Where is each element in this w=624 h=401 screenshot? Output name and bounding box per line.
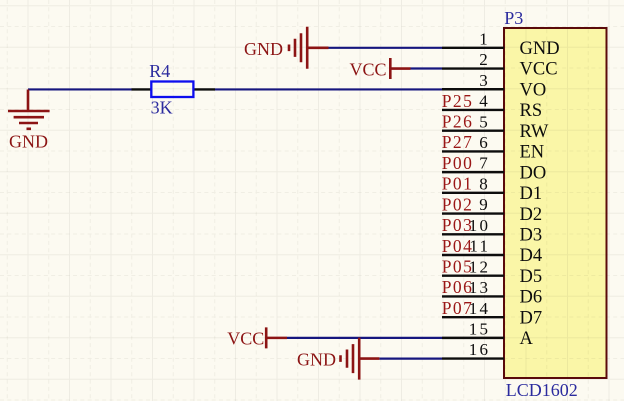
- svg-text:GND: GND: [244, 39, 283, 59]
- svg-text:D5: D5: [520, 267, 543, 287]
- svg-text:P25: P25: [442, 91, 473, 111]
- svg-text:D4: D4: [520, 246, 543, 266]
- svg-text:RS: RS: [520, 101, 543, 121]
- svg-text:D6: D6: [520, 288, 543, 308]
- svg-text:P02: P02: [442, 194, 473, 214]
- svg-text:VO: VO: [520, 80, 547, 100]
- svg-text:P3: P3: [504, 8, 523, 28]
- svg-text:VCC: VCC: [349, 60, 386, 80]
- svg-text:10: 10: [469, 216, 490, 235]
- svg-text:1: 1: [479, 29, 488, 48]
- svg-text:12: 12: [469, 257, 490, 276]
- svg-text:5: 5: [479, 112, 488, 131]
- svg-text:P00: P00: [442, 153, 473, 173]
- svg-text:9: 9: [479, 195, 488, 214]
- svg-text:P26: P26: [442, 111, 473, 131]
- svg-text:8: 8: [479, 174, 488, 193]
- svg-text:16: 16: [469, 340, 490, 359]
- svg-text:RW: RW: [520, 122, 549, 142]
- svg-text:3K: 3K: [151, 98, 173, 118]
- svg-text:6: 6: [479, 133, 488, 152]
- svg-text:2: 2: [479, 50, 488, 69]
- svg-text:D1: D1: [520, 184, 543, 204]
- svg-text:R4: R4: [149, 61, 170, 81]
- svg-text:7: 7: [479, 154, 488, 173]
- svg-text:15: 15: [469, 319, 490, 338]
- svg-text:VCC: VCC: [227, 329, 264, 349]
- svg-text:P01: P01: [442, 174, 473, 194]
- svg-text:EN: EN: [520, 143, 545, 163]
- svg-text:13: 13: [469, 278, 490, 297]
- svg-text:D2: D2: [520, 205, 543, 225]
- svg-text:GND: GND: [297, 350, 336, 370]
- svg-text:DO: DO: [520, 163, 547, 183]
- svg-text:3: 3: [479, 71, 488, 90]
- svg-text:14: 14: [469, 299, 490, 318]
- svg-text:P27: P27: [442, 132, 473, 152]
- svg-text:A: A: [520, 329, 534, 349]
- svg-text:VCC: VCC: [520, 60, 558, 80]
- svg-text:D7: D7: [520, 308, 543, 328]
- svg-text:GND: GND: [520, 39, 560, 59]
- svg-text:GND: GND: [9, 132, 48, 152]
- svg-text:11: 11: [469, 237, 490, 256]
- svg-text:4: 4: [479, 92, 488, 111]
- svg-text:D3: D3: [520, 225, 543, 245]
- svg-text:LCD1602: LCD1602: [506, 380, 578, 400]
